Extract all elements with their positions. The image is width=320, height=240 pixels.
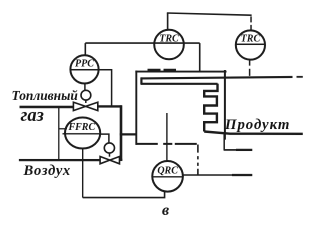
wire: dashed stem from top line down to TRC2 <box>250 16 252 30</box>
pipe: air line right segment <box>119 159 122 161</box>
pipe: fuel drop to burner <box>120 105 123 161</box>
furnace right wall <box>224 70 226 140</box>
coil serpentine <box>204 84 217 132</box>
wire: FFRC bottom drop to QRC line <box>82 148 84 197</box>
pipe: air line left segment <box>19 159 100 161</box>
wire: stem from top line down to TRC1 <box>167 13 169 31</box>
furnace bottom edge <box>135 143 196 145</box>
wire: FFRC output to valve V2 actuator <box>99 134 109 143</box>
furnace top edge <box>135 71 226 73</box>
controller PPC <box>70 55 98 83</box>
valve V1 (fuel gas) <box>73 102 85 110</box>
chord TRC2 <box>236 43 265 45</box>
chord FFRC <box>62 133 99 135</box>
wire: signal line PPC corner to TRC1 through chord to right corner <box>85 42 199 44</box>
chord QRC <box>152 176 182 178</box>
pipe: tube left end cap <box>140 77 142 84</box>
actuator circle of valve V2 <box>104 143 114 153</box>
wire: sense branch into FFRC <box>59 128 67 130</box>
wire: PPC output right then down to valve1 stem area <box>99 70 112 106</box>
wire: PPC bottom stem to actuator <box>84 83 86 90</box>
wire: branch from product line down and right <box>223 134 225 150</box>
pipe: burner line into furnace <box>120 133 137 135</box>
controller TRC1 <box>154 30 184 60</box>
actuator circle of valve V1 <box>81 90 91 100</box>
svg-text:Продукт: Продукт <box>224 117 290 133</box>
svg-text:TRC: TRC <box>159 34 179 45</box>
svg-text:PPC: PPC <box>75 58 94 69</box>
valve V2 (air) <box>100 156 110 163</box>
wire: QRC sensor line inside furnace <box>166 113 168 161</box>
chord PPC <box>71 69 99 71</box>
svg-text:газ: газ <box>20 106 43 126</box>
wire: top signal line TRC1-TRC2 <box>167 13 252 15</box>
svg-text:в: в <box>162 202 169 219</box>
wire: bottom line from FFRC drop to QRC <box>83 191 165 198</box>
svg-text:Воздух: Воздух <box>22 163 70 179</box>
pipe: fuel gas line left segment <box>20 106 74 108</box>
controller QRC <box>152 161 183 192</box>
svg-text:QRC: QRC <box>157 165 178 176</box>
pipe: coil feed line (top of tube) entering from right <box>141 77 293 79</box>
svg-text:TRC: TRC <box>241 34 261 45</box>
pipe: tube bottom line <box>141 83 218 85</box>
pipe: product outlet line <box>204 132 303 134</box>
furnace left wall <box>135 71 137 145</box>
pipe: fuel gas line right segment <box>98 105 122 107</box>
svg-text:FFRC: FFRC <box>67 122 95 133</box>
ink blob on furnace top edge <box>148 69 177 71</box>
wire: actuator stem to valve V2 <box>108 153 110 157</box>
wire: actuator stem to valve V1 <box>85 100 87 103</box>
wire: vertical from signal line down to PPC top <box>84 43 86 56</box>
wire: dashed drop from furnace bottom right to QRC line <box>197 145 199 176</box>
wire: QRC right line to edge <box>183 174 232 176</box>
controller TRC2 <box>236 30 265 59</box>
controller FFRC <box>65 117 100 148</box>
wire: dashed stem TRC2 bottom to feed line <box>249 60 251 76</box>
wire: vertical down to furnace top (TRC1 sensor) <box>199 43 201 71</box>
wire: fuel flow sense vertical to FFRC and air line <box>58 108 60 160</box>
svg-text:Топливный: Топливный <box>12 88 79 103</box>
